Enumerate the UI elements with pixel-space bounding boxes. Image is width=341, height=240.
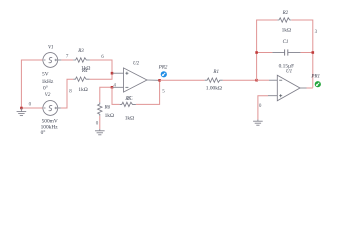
svg-text:U2: U2 — [133, 62, 140, 67]
svg-text:R2: R2 — [282, 11, 289, 16]
svg-text:R4: R4 — [81, 69, 88, 74]
wire V1 right to R3 — [58, 59, 73, 61]
op-amp U2 — [113, 62, 160, 102]
svg-text:1kΩ: 1kΩ — [105, 113, 114, 119]
wire R6 bottom to ground — [99, 116, 101, 129]
wire V1 left to ground junction — [21, 60, 43, 108]
svg-text:0°: 0° — [43, 84, 48, 91]
svg-text:3C: 3C — [127, 97, 133, 102]
ground (below R6) — [95, 129, 105, 135]
wire ground junction to V2 left — [21, 107, 43, 109]
voltage source V1 — [42, 46, 58, 92]
- input junction dot of U1 — [255, 79, 258, 82]
svg-text:V2: V2 — [45, 93, 51, 98]
svg-text:0°: 0° — [41, 129, 46, 136]
resistor R1 — [205, 70, 223, 92]
probe PR2 — [158, 65, 168, 77]
resistor R4 — [73, 69, 89, 93]
svg-text:1.00kΩ: 1.00kΩ — [206, 85, 222, 91]
svg-text:1kΩ: 1kΩ — [125, 116, 134, 122]
resistor R2 — [277, 11, 291, 34]
svg-text:V1: V1 — [48, 46, 54, 51]
wire + input to ground — [258, 96, 268, 120]
node junction + input dot — [111, 72, 114, 75]
svg-text:PR2: PR2 — [158, 65, 168, 70]
svg-text:C1: C1 — [283, 40, 289, 45]
svg-text:1kΩ: 1kΩ — [78, 87, 87, 93]
resistor R3 — [73, 49, 90, 72]
junction dot C1 right — [312, 51, 315, 54]
wire C1 row left — [257, 52, 273, 54]
wire R1 red lead into - stub — [257, 79, 269, 81]
svg-text:500mV: 500mV — [42, 118, 58, 124]
capacitor C1 — [272, 40, 300, 70]
svg-text:U1: U1 — [286, 69, 292, 74]
svg-text:5V: 5V — [42, 72, 49, 78]
wire R2 right down column — [291, 20, 313, 88]
svg-text:R1: R1 — [212, 70, 219, 75]
wire U2 output to R1 — [160, 79, 205, 81]
wire R4 to op-amp + input — [90, 73, 112, 79]
output junction dot (net 5) — [158, 79, 161, 82]
wire V2 right up to R4 — [58, 79, 74, 108]
junction dot C1 left — [255, 51, 258, 54]
voltage source V2 — [41, 93, 59, 136]
ground (below U1 + input) — [253, 120, 263, 126]
svg-text:1kΩ: 1kΩ — [282, 28, 291, 34]
svg-text:1kHz: 1kHz — [42, 79, 54, 85]
svg-text:PR1: PR1 — [310, 74, 320, 79]
ground (left) — [17, 108, 27, 116]
node 0 junction dot — [20, 107, 23, 110]
svg-text:R3: R3 — [77, 49, 84, 54]
resistor R6 (vertical) — [98, 102, 114, 119]
wire U1 output to probe corner — [307, 87, 313, 89]
resistor R5 — [120, 97, 136, 122]
wire R1 to U1 - input — [223, 79, 257, 81]
wire R3 to op-amp + input (net 6) — [90, 60, 112, 73]
op-amp U1 — [268, 69, 307, 100]
wire C1 row right — [301, 52, 313, 54]
wire - input to R6 top — [100, 87, 112, 102]
probe PR1 — [310, 74, 321, 87]
wire R5 right up to output node — [136, 80, 160, 104]
wire - input up left feedback column — [257, 20, 278, 80]
wire - input down to R5 — [112, 87, 120, 104]
svg-text:R6: R6 — [104, 105, 111, 110]
node 4 junction dot — [111, 86, 114, 89]
